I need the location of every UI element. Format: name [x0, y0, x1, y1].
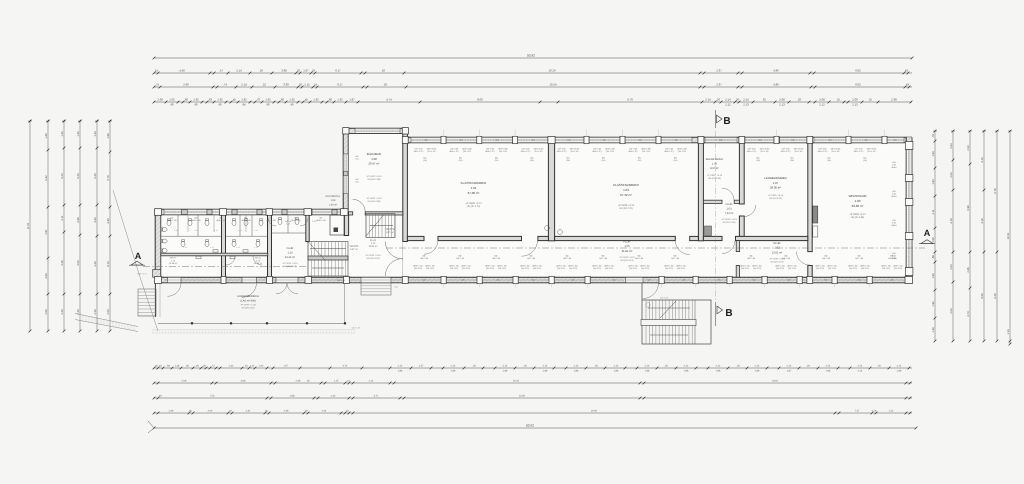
svg-text:(2H 2.13): (2H 2.13) — [776, 267, 784, 270]
svg-text:FLUR: FLUR — [773, 242, 780, 245]
svg-text:28.05 m²: 28.05 m² — [770, 186, 781, 190]
svg-text:2.13: 2.13 — [779, 102, 785, 106]
svg-text:LWF 1.60: LWF 1.60 — [671, 257, 679, 260]
svg-text:2.14: 2.14 — [543, 365, 548, 368]
svg-text:LWF 1.60: LWF 1.60 — [420, 257, 428, 260]
svg-text:6.97 m²: 6.97 m² — [350, 248, 358, 251]
svg-text:(BRH 1.40): (BRH 1.40) — [266, 219, 276, 222]
svg-text:1.15: 1.15 — [174, 229, 177, 232]
svg-text:+P OKFF +3.13: +P OKFF +3.13 — [465, 202, 482, 205]
svg-text:1.08: 1.08 — [371, 157, 377, 161]
svg-text:.63: .63 — [208, 98, 212, 102]
svg-text:1.82: 1.82 — [265, 98, 271, 102]
svg-text:(BRH 1.40): (BRH 1.40) — [216, 219, 226, 222]
svg-text:UK (2H 2.92): UK (2H 2.92) — [708, 177, 721, 180]
svg-text:2.03: 2.03 — [950, 264, 953, 270]
svg-text:4.46: 4.46 — [77, 217, 80, 223]
svg-text:2.16: 2.16 — [872, 410, 877, 413]
svg-text:1.04: 1.04 — [623, 188, 629, 192]
svg-text:2.03: 2.03 — [950, 308, 953, 314]
svg-text:+P OKFF +3.13: +P OKFF +3.13 — [768, 194, 784, 197]
svg-text:.24: .24 — [313, 83, 317, 87]
svg-text:1.15: 1.15 — [214, 229, 217, 232]
svg-text:LWF 1.60: LWF 1.60 — [747, 257, 755, 260]
svg-text:.22: .22 — [262, 83, 266, 87]
svg-text:(BRH 1.40): (BRH 1.40) — [167, 219, 177, 222]
svg-text:1.90: 1.90 — [932, 151, 935, 157]
svg-text:2.14: 2.14 — [503, 365, 508, 368]
svg-text:(2H 1.10): (2H 1.10) — [642, 150, 650, 153]
svg-text:1.07: 1.07 — [773, 181, 779, 185]
svg-text:+P OKFF +3.13: +P OKFF +3.13 — [619, 256, 635, 259]
svg-text:.26: .26 — [298, 83, 302, 87]
svg-text:FLUR: FLUR — [726, 203, 733, 206]
svg-text:11.01: 11.01 — [27, 222, 30, 229]
svg-text:(BRH 1.37): (BRH 1.37) — [592, 150, 602, 153]
svg-text:18.61: 18.61 — [772, 380, 779, 383]
svg-text:KLASSENZIMMER: KLASSENZIMMER — [461, 181, 488, 185]
svg-text:67.00 m²: 67.00 m² — [468, 191, 480, 195]
svg-text:1.14: 1.14 — [1007, 329, 1010, 335]
svg-text:1.56: 1.56 — [932, 237, 935, 243]
svg-text:604: 604 — [603, 139, 606, 142]
svg-text:(2H): (2H) — [530, 159, 534, 162]
svg-text:7.47: 7.47 — [855, 410, 860, 413]
svg-text:2.14: 2.14 — [684, 365, 689, 368]
svg-text:1.07: 1.07 — [303, 69, 309, 73]
svg-text:5.25: 5.25 — [94, 173, 97, 179]
svg-text:(2H 2.13): (2H 2.13) — [677, 267, 685, 270]
svg-text:UK (2H 2.08): UK (2H 2.08) — [368, 178, 381, 181]
svg-text:4.68: 4.68 — [241, 380, 246, 383]
svg-text:.47: .47 — [219, 69, 223, 73]
svg-text:(2H 2.13): (2H 2.13) — [533, 267, 541, 270]
svg-text:(2H 1.10): (2H 1.10) — [463, 150, 471, 153]
svg-text:.45: .45 — [232, 98, 236, 102]
svg-text:1.92: 1.92 — [259, 365, 264, 368]
svg-text:.26: .26 — [716, 98, 720, 102]
svg-text:1.32: 1.32 — [229, 365, 234, 368]
svg-text:2.13: 2.13 — [743, 102, 749, 106]
svg-text:1.10: 1.10 — [287, 252, 293, 255]
svg-text:1.15: 1.15 — [210, 246, 213, 249]
svg-text:2.11: 2.11 — [61, 215, 64, 221]
svg-text:90: 90 — [266, 102, 270, 106]
svg-text:1.15: 1.15 — [194, 229, 197, 232]
svg-text:2.36: 2.36 — [296, 380, 301, 383]
svg-text:1.35: 1.35 — [77, 131, 80, 137]
svg-text:.26: .26 — [381, 69, 385, 73]
svg-text:605: 605 — [858, 279, 861, 282]
svg-text:PUTZMITTEL: PUTZMITTEL — [326, 195, 341, 198]
svg-text:UK (2H 3.13): UK (2H 3.13) — [367, 257, 380, 260]
svg-text:4.74: 4.74 — [386, 98, 392, 102]
svg-text:(BRH 1.37): (BRH 1.37) — [485, 150, 495, 153]
svg-text:1.35: 1.35 — [61, 131, 64, 137]
svg-text:4.16: 4.16 — [950, 218, 953, 224]
svg-text:605: 605 — [825, 279, 828, 282]
svg-text:(2H 2.13): (2H 2.13) — [605, 267, 613, 270]
svg-text:2.46: 2.46 — [967, 267, 970, 273]
svg-text:1.90: 1.90 — [932, 301, 935, 307]
svg-text:(2H): (2H) — [638, 159, 642, 162]
svg-text:[LAG m² 808]: [LAG m² 808] — [241, 299, 256, 302]
svg-text:WERKRAUM: WERKRAUM — [849, 194, 867, 198]
svg-text:+P OKFF +3.13: +P OKFF +3.13 — [366, 197, 382, 200]
svg-text:(2H 2.13): (2H 2.13) — [741, 267, 749, 270]
svg-text:2.14: 2.14 — [369, 380, 374, 383]
svg-text:.70: .70 — [256, 98, 260, 102]
svg-text:.62: .62 — [762, 98, 766, 102]
svg-text:(2H): (2H) — [459, 159, 463, 162]
svg-text:(2H): (2H) — [790, 159, 794, 162]
svg-text:(2H): (2H) — [602, 159, 606, 162]
svg-text:5.25: 5.25 — [77, 173, 80, 179]
svg-text:2.28: 2.28 — [94, 309, 97, 315]
svg-text:LWF 1.60: LWF 1.60 — [599, 257, 607, 260]
svg-text:(BRH 1.37): (BRH 1.37) — [854, 150, 864, 153]
svg-text:SEKRETARIAT: SEKRETARIAT — [706, 158, 724, 161]
svg-text:LWF 1.60: LWF 1.60 — [855, 257, 863, 260]
svg-text:1.86: 1.86 — [755, 369, 760, 372]
svg-text:1.82: 1.82 — [241, 98, 247, 102]
svg-text:3.30: 3.30 — [283, 83, 289, 87]
svg-text:B: B — [725, 308, 732, 319]
svg-text:40: 40 — [290, 102, 294, 106]
svg-text:1.48: 1.48 — [175, 365, 180, 368]
svg-text:(2H 2.13): (2H 2.13) — [414, 267, 422, 270]
svg-text:604: 604 — [894, 139, 897, 142]
svg-text:1.32: 1.32 — [289, 98, 295, 102]
svg-text:(2H 2.13): (2H 2.13) — [450, 267, 458, 270]
svg-text:6.02: 6.02 — [855, 83, 861, 87]
svg-text:4.40: 4.40 — [107, 218, 110, 224]
svg-text:4.45: 4.45 — [94, 217, 97, 223]
svg-text:(2H 2.13): (2H 2.13) — [816, 267, 824, 270]
svg-text:(2H): (2H) — [423, 159, 427, 162]
svg-text:(2H): (2H) — [863, 159, 867, 162]
svg-text:UK (2H 3.13): UK (2H 3.13) — [769, 197, 782, 200]
svg-text:+P OKFF +3.13: +P OKFF +3.13 — [707, 174, 723, 177]
svg-text:1.86: 1.86 — [398, 369, 403, 372]
svg-text:15.90: 15.90 — [519, 395, 526, 398]
svg-text:2.12: 2.12 — [819, 102, 825, 106]
svg-text:7.53: 7.53 — [210, 395, 215, 398]
svg-text:.26: .26 — [383, 83, 387, 87]
svg-text:2.12: 2.12 — [725, 102, 731, 106]
svg-text:6.15: 6.15 — [107, 261, 110, 267]
svg-text:BÜCHEREI: BÜCHEREI — [367, 152, 382, 156]
svg-text:(BRH 1.40): (BRH 1.40) — [241, 219, 251, 222]
svg-text:2.14: 2.14 — [897, 365, 902, 368]
svg-text:2.44: 2.44 — [322, 410, 327, 413]
svg-text:(2H 2.13): (2H 2.13) — [788, 267, 796, 270]
svg-text:90: 90 — [194, 102, 198, 106]
svg-text:LWF 1.60: LWF 1.60 — [822, 257, 830, 260]
svg-text:604: 604 — [460, 139, 463, 142]
svg-text:0.60: 0.60 — [355, 180, 359, 183]
svg-text:(BRH): (BRH) — [891, 166, 897, 169]
svg-text:(BRH): (BRH) — [891, 195, 897, 198]
svg-text:.26: .26 — [296, 69, 300, 73]
svg-text:2.08: 2.08 — [852, 98, 858, 102]
svg-text:1.22: 1.22 — [250, 365, 255, 368]
svg-text:.66: .66 — [280, 98, 284, 102]
svg-text:(BRH 1.37): (BRH 1.37) — [818, 150, 828, 153]
svg-text:(2H 2.13): (2H 2.13) — [426, 267, 434, 270]
svg-text:1.86: 1.86 — [897, 369, 902, 372]
svg-text:(2H 1.10): (2H 1.10) — [761, 150, 769, 153]
svg-text:1.32: 1.32 — [217, 98, 223, 102]
svg-text:1.07: 1.07 — [284, 365, 289, 368]
svg-text:2.11: 2.11 — [932, 209, 935, 215]
svg-text:50.92: 50.92 — [527, 53, 535, 57]
svg-text:605: 605 — [532, 279, 535, 282]
svg-text:3.71: 3.71 — [374, 395, 379, 398]
svg-text:(2H 1.10): (2H 1.10) — [428, 150, 436, 153]
svg-text:6.17: 6.17 — [337, 83, 343, 87]
svg-text:2.03: 2.03 — [950, 143, 953, 149]
svg-text:(2H 2.13): (2H 2.13) — [665, 267, 673, 270]
svg-text:(2H 1.10): (2H 1.10) — [795, 150, 803, 153]
svg-text:2.08: 2.08 — [182, 380, 187, 383]
svg-text:(2H 2.13): (2H 2.13) — [498, 267, 506, 270]
svg-text:AUSSENBEREICH: AUSSENBEREICH — [237, 295, 259, 298]
svg-text:604: 604 — [425, 139, 428, 142]
svg-text:(2H 2.13): (2H 2.13) — [521, 267, 529, 270]
svg-text:1.15: 1.15 — [254, 246, 257, 249]
svg-text:2.14: 2.14 — [716, 365, 721, 368]
svg-text:2.08: 2.08 — [779, 98, 785, 102]
svg-text:2.37: 2.37 — [716, 83, 722, 87]
svg-text:1.86: 1.86 — [543, 369, 548, 372]
svg-text:UK (2H 3.19): UK (2H 3.19) — [242, 306, 255, 309]
svg-text:(2H 2.13): (2H 2.13) — [486, 267, 494, 270]
svg-text:.25: .25 — [868, 98, 872, 102]
svg-text:10.31: 10.31 — [1007, 232, 1010, 239]
svg-text:20.47 m²: 20.47 m² — [368, 162, 379, 166]
svg-text:(BRH 1.37): (BRH 1.37) — [781, 150, 791, 153]
svg-text:605: 605 — [423, 279, 426, 282]
svg-text:(BRH 1.40): (BRH 1.40) — [316, 219, 326, 222]
svg-text:2.14: 2.14 — [451, 365, 456, 368]
svg-text:4.16: 4.16 — [981, 157, 984, 163]
svg-text:(BRH 1.37): (BRH 1.37) — [664, 150, 674, 153]
svg-text:KLASSENZIMMER: KLASSENZIMMER — [613, 183, 640, 187]
svg-text:(BRH): (BRH) — [891, 224, 897, 227]
svg-text:(2H): (2H) — [827, 159, 831, 162]
svg-text:1.90: 1.90 — [932, 179, 935, 185]
svg-text:1.86: 1.86 — [645, 369, 650, 372]
svg-text:2.14: 2.14 — [614, 365, 619, 368]
svg-text:5.23: 5.23 — [61, 173, 64, 179]
svg-text:1.87: 1.87 — [349, 98, 355, 102]
svg-text:1.02: 1.02 — [169, 98, 175, 102]
svg-text:1.15: 1.15 — [238, 229, 241, 232]
svg-text:605: 605 — [788, 279, 791, 282]
svg-text:(2H 2.13): (2H 2.13) — [849, 267, 857, 270]
svg-text:LWF 1.60: LWF 1.60 — [527, 257, 535, 260]
svg-text:.45: .45 — [304, 98, 308, 102]
svg-text:.78: .78 — [932, 134, 935, 138]
svg-text:2.14: 2.14 — [241, 83, 247, 87]
svg-text:1.86: 1.86 — [451, 369, 456, 372]
svg-text:(2H 2.13): (2H 2.13) — [894, 267, 902, 270]
svg-text:OK +1.73: OK +1.73 — [352, 327, 361, 330]
svg-text:FLUR: FLUR — [370, 239, 376, 242]
svg-text:(2H 2.13): (2H 2.13) — [753, 267, 761, 270]
svg-text:2.14: 2.14 — [858, 369, 863, 372]
svg-text:13.51 m²: 13.51 m² — [772, 251, 783, 254]
svg-text:3.28: 3.28 — [61, 260, 64, 266]
svg-text:6.26: 6.26 — [994, 293, 997, 299]
svg-text:(BRH 1.37): (BRH 1.37) — [449, 150, 459, 153]
svg-text:63.82 m²: 63.82 m² — [852, 204, 864, 208]
svg-text:1.02: 1.02 — [774, 247, 780, 250]
svg-text:1.15: 1.15 — [334, 380, 339, 383]
svg-text:1.86: 1.86 — [716, 369, 721, 372]
svg-text:(2H 2.13): (2H 2.13) — [882, 267, 890, 270]
svg-text:(BRH 1.37): (BRH 1.37) — [414, 150, 424, 153]
svg-text:.74: .74 — [223, 83, 227, 87]
svg-text:(BRH 1.40): (BRH 1.40) — [191, 219, 201, 222]
svg-text:1.05: 1.05 — [624, 245, 630, 248]
svg-text:(2H 1.10): (2H 1.10) — [499, 150, 507, 153]
svg-text:13.26 m²: 13.26 m² — [285, 256, 295, 259]
svg-text:1.47: 1.47 — [419, 365, 424, 368]
svg-text:5.75: 5.75 — [107, 175, 110, 181]
svg-text:+P OKFF +3.13: +P OKFF +3.13 — [618, 204, 635, 207]
svg-text:4.74: 4.74 — [343, 365, 348, 368]
svg-text:3.40: 3.40 — [208, 410, 213, 413]
svg-text:508 +1.73: 508 +1.73 — [337, 279, 345, 282]
svg-text:0.00: 0.00 — [394, 286, 398, 289]
svg-text:.43: .43 — [904, 69, 908, 73]
svg-text:10.24: 10.24 — [513, 380, 520, 383]
svg-text:+P OKFF +3.13: +P OKFF +3.13 — [721, 218, 737, 221]
svg-text:2.14: 2.14 — [787, 365, 792, 368]
svg-text:.26: .26 — [797, 98, 801, 102]
svg-text:4.16: 4.16 — [981, 218, 984, 224]
svg-text:1.12: 1.12 — [371, 242, 376, 245]
svg-text:+P OKFF +1.28: +P OKFF +1.28 — [240, 304, 256, 307]
svg-text:(2H): (2H) — [756, 159, 760, 162]
svg-text:SW +0.58: SW +0.58 — [660, 297, 668, 300]
svg-text:1.50 m²: 1.50 m² — [329, 203, 337, 206]
svg-text:+P OKFF +3.13: +P OKFF +3.13 — [366, 175, 382, 178]
svg-text:1.86: 1.86 — [614, 369, 619, 372]
svg-text:2.14: 2.14 — [574, 365, 579, 368]
svg-text:.26: .26 — [311, 69, 315, 73]
svg-text:604: 604 — [720, 139, 723, 142]
svg-text:.66: .66 — [184, 98, 188, 102]
svg-text:(2H 2.13): (2H 2.13) — [641, 267, 649, 270]
svg-text:(2H 1.10): (2H 1.10) — [678, 150, 686, 153]
svg-text:(2H 2.13): (2H 2.13) — [828, 267, 836, 270]
svg-text:6.17: 6.17 — [335, 69, 341, 73]
svg-text:4.86: 4.86 — [773, 69, 779, 73]
svg-text:2.14: 2.14 — [725, 98, 731, 102]
svg-text:1.35: 1.35 — [94, 131, 97, 137]
svg-text:(2H 1.10): (2H 1.10) — [606, 150, 614, 153]
svg-text:(2H 1.10): (2H 1.10) — [535, 150, 543, 153]
svg-text:1.86: 1.86 — [684, 369, 689, 372]
svg-text:LWF 1.60: LWF 1.60 — [492, 257, 500, 260]
svg-text:(2H 2.13): (2H 2.13) — [861, 267, 869, 270]
svg-text:61.81 m²: 61.81 m² — [622, 250, 633, 253]
svg-text:(BRH): (BRH) — [891, 257, 897, 260]
svg-text:1.87: 1.87 — [787, 369, 792, 372]
svg-text:2.43: 2.43 — [331, 395, 336, 398]
svg-text:UK (2H 3.13): UK (2H 3.13) — [771, 260, 784, 263]
svg-text:WC-D: WC-D — [255, 257, 261, 260]
svg-text:LWF 1.60: LWF 1.60 — [456, 257, 464, 260]
svg-text:3.73: 3.73 — [967, 311, 970, 317]
svg-text:+P OKFF +3.13: +P OKFF +3.13 — [849, 213, 866, 216]
svg-text:2.14: 2.14 — [398, 365, 403, 368]
svg-text:2.14: 2.14 — [755, 365, 760, 368]
svg-text:(2H): (2H) — [495, 159, 499, 162]
svg-text:.74: .74 — [155, 83, 159, 87]
svg-text:B: B — [723, 116, 730, 127]
svg-text:LWF 1.60: LWF 1.60 — [563, 257, 571, 260]
svg-text:2.14: 2.14 — [826, 365, 831, 368]
svg-text:10.24: 10.24 — [550, 83, 557, 87]
svg-text:10.29: 10.29 — [549, 69, 556, 73]
svg-text:1.15: 1.15 — [254, 229, 257, 232]
svg-text:1.32: 1.32 — [313, 98, 319, 102]
svg-text:4.40: 4.40 — [179, 69, 185, 73]
svg-text:1.01: 1.01 — [471, 186, 477, 190]
svg-text:2.14: 2.14 — [645, 365, 650, 368]
svg-text:6.56: 6.56 — [981, 293, 984, 299]
svg-text:84: 84 — [242, 102, 246, 106]
svg-text:605: 605 — [497, 279, 500, 282]
svg-text:1.15: 1.15 — [183, 246, 186, 249]
svg-text:6.71 m²: 6.71 m² — [386, 231, 394, 234]
svg-text:1.88: 1.88 — [107, 133, 110, 139]
svg-text:1.86: 1.86 — [826, 369, 831, 372]
svg-text:605: 605 — [572, 279, 575, 282]
svg-text:1.09: 1.09 — [331, 199, 336, 202]
svg-text:9.70: 9.70 — [627, 98, 633, 102]
svg-text:90: 90 — [218, 102, 222, 106]
svg-text:(2H 1.10): (2H 1.10) — [571, 150, 579, 153]
svg-text:(BRH 1.37): (BRH 1.37) — [747, 150, 757, 153]
svg-text:LEHRERZIMMER: LEHRERZIMMER — [764, 176, 786, 180]
svg-text:605: 605 — [683, 279, 686, 282]
svg-text:604: 604 — [865, 139, 868, 142]
svg-text:UK (2H 2.92): UK (2H 2.92) — [723, 221, 736, 224]
svg-text:(BRH 1.37): (BRH 1.37) — [521, 150, 531, 153]
svg-text:UK (2H 2.85): UK (2H 2.85) — [851, 216, 865, 219]
svg-text:2.84: 2.84 — [45, 273, 48, 279]
svg-text:WC-H: WC-H — [170, 257, 176, 260]
svg-text:1.86: 1.86 — [503, 369, 508, 372]
svg-text:2.33: 2.33 — [967, 145, 970, 151]
svg-text:.26: .26 — [735, 98, 739, 102]
svg-text:604: 604 — [532, 139, 535, 142]
svg-text:(2H 2.13): (2H 2.13) — [629, 267, 637, 270]
svg-text:605: 605 — [462, 279, 465, 282]
svg-text:LWF 1.60: LWF 1.60 — [635, 257, 643, 260]
svg-text:.26: .26 — [259, 69, 263, 73]
svg-text:605: 605 — [648, 279, 651, 282]
svg-text:2.08: 2.08 — [819, 98, 825, 102]
svg-text:(BRH 1.37): (BRH 1.37) — [557, 150, 567, 153]
svg-text:2.37: 2.37 — [716, 69, 722, 73]
svg-text:2.08: 2.08 — [45, 309, 48, 315]
